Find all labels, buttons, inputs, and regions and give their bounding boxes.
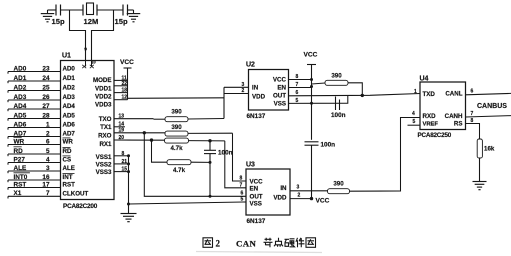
svg-text:AD6: AD6 — [63, 122, 76, 129]
svg-text:8: 8 — [471, 118, 474, 124]
svg-text:AD2: AD2 — [14, 84, 27, 91]
node VSS bus of U1 — [114, 155, 129, 157]
svg-text:9: 9 — [84, 47, 87, 53]
svg-text:RXO: RXO — [98, 132, 112, 139]
svg-text:12M: 12M — [84, 17, 99, 26]
capacitor C5 100n — [335, 97, 337, 111]
svg-text:VSS2: VSS2 — [96, 161, 112, 168]
wire U2 EN pin 7 — [289, 87, 312, 89]
wire RX0 net — [114, 132, 165, 134]
svg-text:CAN: CAN — [236, 239, 257, 249]
crystal Y1 12M — [82, 5, 84, 16]
svg-text:EN: EN — [277, 85, 286, 92]
svg-text:2: 2 — [46, 130, 50, 137]
wire VSS down to ground — [128, 156, 130, 214]
capacitor C4 100n — [209, 141, 211, 151]
svg-text:27: 27 — [42, 103, 50, 110]
wire net WR pin 6 — [8, 144, 61, 146]
wire net ALE pin 3 — [8, 170, 61, 172]
scan smudge under caption — [196, 252, 322, 253]
wire net X1 pin 7 — [8, 195, 61, 197]
svg-text:28: 28 — [42, 112, 50, 119]
svg-text:IN: IN — [252, 85, 259, 92]
svg-text:PCA82C250: PCA82C250 — [418, 132, 452, 139]
svg-text:6: 6 — [296, 90, 299, 96]
svg-text:VCC: VCC — [120, 59, 134, 66]
svg-text:15: 15 — [122, 167, 128, 173]
svg-text:100n: 100n — [321, 142, 336, 149]
wire CANL to CANBUS — [466, 93, 511, 94]
svg-text:VSS: VSS — [250, 201, 262, 208]
svg-text:VCC: VCC — [304, 52, 318, 59]
svg-text:100n: 100n — [218, 150, 233, 157]
capacitor C2 15p — [55, 5, 57, 16]
svg-text:AD1: AD1 — [63, 75, 76, 82]
svg-text:VDD: VDD — [252, 94, 266, 101]
svg-text:AD7: AD7 — [63, 131, 76, 138]
svg-text:100n: 100n — [331, 112, 346, 119]
wire net AD2 pin 25 — [8, 90, 61, 92]
svg-text:VCC: VCC — [316, 198, 330, 205]
svg-text:RS: RS — [454, 120, 463, 127]
svg-text:EN: EN — [250, 186, 259, 193]
svg-text:IN: IN — [280, 185, 287, 192]
svg-text:7: 7 — [46, 190, 50, 197]
wire crystal to XTAL2 — [92, 10, 114, 61]
svg-text:ALE: ALE — [14, 165, 28, 172]
svg-text:VSS: VSS — [274, 101, 286, 108]
node VCC bus of U1 — [114, 79, 128, 81]
svg-text:VDD2: VDD2 — [95, 93, 112, 100]
wire U3 IN pin 3 — [290, 190, 328, 192]
ground (right 15p) — [133, 10, 135, 14]
svg-text:TXO: TXO — [99, 116, 112, 123]
svg-text:390: 390 — [171, 109, 182, 116]
svg-text:16: 16 — [42, 174, 50, 181]
resistor R7 16k — [477, 139, 482, 158]
wire crystal rail b — [61, 9, 84, 11]
svg-text:VDD1: VDD1 — [95, 85, 112, 92]
svg-text:VSS1: VSS1 — [96, 154, 112, 161]
wire TX0 net — [114, 118, 154, 120]
svg-text:26: 26 — [42, 94, 50, 101]
svg-text:RD: RD — [14, 148, 24, 155]
svg-text:4.7k: 4.7k — [170, 145, 183, 152]
op-amp U1 PCA82C200 CAN controller — [61, 61, 115, 200]
op-amp U2 6N137 optocoupler — [249, 70, 289, 111]
svg-text:6: 6 — [46, 138, 50, 145]
svg-text:VSS3: VSS3 — [96, 169, 112, 176]
svg-text:CANBUS: CANBUS — [477, 103, 507, 110]
svg-text:24: 24 — [42, 75, 50, 82]
capacitor C6 100n (VCC rail) — [305, 141, 319, 143]
wire RX1 down to U3 pin 7 — [225, 141, 246, 188]
wire TX1 stub pin 14 — [114, 126, 125, 128]
wire net RD pin 5 — [8, 153, 61, 155]
resistor R2 390 (RX0) — [165, 131, 188, 136]
wire 4.7k2 right leg — [191, 161, 210, 163]
svg-text:8: 8 — [122, 151, 125, 157]
wire RS to slope resistor — [466, 124, 480, 140]
svg-text:CANH: CANH — [445, 113, 463, 120]
svg-text:U2: U2 — [246, 62, 255, 69]
wire U2 VCC pin 8 — [289, 79, 312, 81]
svg-text:MODE: MODE — [93, 77, 112, 84]
svg-text:23: 23 — [42, 65, 50, 72]
svg-text:TXD: TXD — [423, 91, 436, 98]
wire U2 OUT pin 6 to U4 TXD — [289, 94, 421, 96]
svg-text:INT0: INT0 — [14, 174, 28, 181]
svg-text:AD1: AD1 — [14, 75, 27, 82]
svg-text:4: 4 — [46, 156, 50, 163]
svg-text:17: 17 — [42, 181, 50, 188]
svg-text:AD4: AD4 — [14, 103, 27, 110]
wire CANH to CANBUS — [466, 116, 511, 117]
svg-text:VDD3: VDD3 — [95, 101, 112, 108]
svg-text:OUT: OUT — [250, 194, 263, 201]
wire VCC feed to U2 anode — [128, 97, 225, 100]
svg-text:OUT: OUT — [273, 93, 286, 100]
wire crystal rail d — [128, 9, 134, 11]
svg-text:3: 3 — [242, 82, 245, 88]
wire crystal to XTAL1 — [70, 10, 86, 61]
wire VSS to U3 VSS pin 5 — [129, 202, 244, 204]
power VCC (U1) — [127, 68, 129, 100]
svg-text:RXD: RXD — [423, 113, 437, 120]
wire U3 OUT net to RX0 — [144, 133, 246, 197]
wire net P27 pin 4 — [8, 162, 61, 164]
svg-text:7: 7 — [471, 111, 474, 117]
pin 9 / pin 10 xtal marks — [85, 61, 87, 67]
wire RX1 net — [114, 139, 165, 141]
svg-text:8: 8 — [296, 74, 299, 80]
svg-text:6N137: 6N137 — [247, 113, 266, 120]
wire net AD3 pin 26 — [8, 99, 61, 101]
svg-text:AD3: AD3 — [14, 94, 27, 101]
svg-text:15p: 15p — [115, 17, 128, 26]
svg-text:U4: U4 — [420, 76, 429, 83]
svg-text:3: 3 — [297, 185, 300, 191]
svg-text:AD4: AD4 — [63, 103, 76, 110]
caption 图2 CAN节点硬件图 — [203, 238, 213, 248]
svg-text:U3: U3 — [246, 162, 255, 169]
svg-text:7: 7 — [240, 183, 243, 189]
svg-text:10: 10 — [91, 59, 96, 64]
svg-text:AD7: AD7 — [14, 130, 27, 137]
op-amp U4 PCA82C250 CAN transceiver — [420, 82, 466, 130]
wire R6 to U4 RXD — [350, 118, 421, 192]
svg-text:16k: 16k — [484, 146, 495, 153]
svg-text:RST: RST — [63, 182, 76, 189]
svg-text:RX1: RX1 — [99, 141, 112, 148]
svg-text:VCC: VCC — [273, 77, 287, 84]
svg-text:390: 390 — [333, 181, 344, 188]
svg-text:U1: U1 — [62, 53, 71, 60]
svg-text:22: 22 — [122, 81, 128, 87]
svg-text:1: 1 — [414, 89, 417, 95]
svg-text:8: 8 — [240, 176, 243, 182]
svg-text:18: 18 — [122, 88, 128, 94]
svg-text:6N137: 6N137 — [247, 218, 266, 225]
resistor R1 390 (TX0) — [165, 117, 188, 122]
resistor R3 4.7k (RX1) — [165, 138, 189, 143]
wire net AD5 pin 28 — [8, 118, 61, 120]
svg-text:5: 5 — [413, 119, 416, 125]
svg-text:12: 12 — [122, 95, 128, 101]
svg-text:PCA82C200: PCA82C200 — [63, 203, 98, 210]
wire 4.7k2 left leg — [152, 140, 168, 162]
svg-text:P27: P27 — [14, 156, 26, 163]
svg-text:INT: INT — [63, 174, 73, 181]
svg-text:CS: CS — [63, 157, 72, 164]
svg-text:AD0: AD0 — [14, 65, 27, 72]
svg-text:25: 25 — [42, 84, 50, 91]
svg-text:2: 2 — [298, 193, 301, 199]
svg-text:AD0: AD0 — [63, 66, 76, 73]
svg-text:4: 4 — [412, 111, 415, 117]
wire net AD6 pin 1 — [8, 127, 61, 129]
svg-text:AD5: AD5 — [63, 113, 76, 120]
wire net AD1 pin 24 — [8, 80, 61, 82]
wire net AD7 pin 2 — [8, 136, 61, 138]
svg-text:5: 5 — [296, 98, 299, 104]
svg-text:RD: RD — [63, 148, 72, 155]
svg-text:21: 21 — [122, 159, 128, 165]
ground (left 15p) — [47, 10, 49, 14]
svg-text:CLKOUT: CLKOUT — [63, 191, 89, 198]
svg-text:390: 390 — [171, 124, 182, 131]
wire crystal rail a — [48, 9, 57, 11]
svg-text:6: 6 — [471, 89, 474, 95]
capacitor C3 15p — [122, 5, 124, 16]
op-amp U3 6N137 optocoupler — [246, 169, 290, 215]
svg-text:ALE: ALE — [63, 165, 75, 172]
svg-text:WR: WR — [14, 138, 25, 145]
resistor R6 390 (RXD) — [328, 189, 350, 194]
svg-text:1: 1 — [46, 121, 50, 128]
wire net RST pin 17 — [8, 187, 61, 189]
wire crystal rail c — [97, 9, 123, 11]
svg-text:AD2: AD2 — [63, 85, 76, 92]
wire R5 to OUT line — [348, 83, 362, 96]
svg-text:AD6: AD6 — [14, 121, 27, 128]
svg-text:VREF: VREF — [423, 121, 439, 127]
svg-text:2: 2 — [216, 239, 221, 249]
svg-text:VDD: VDD — [273, 195, 287, 202]
resistor R4 4.7k — [167, 160, 191, 165]
ground (RS resistor) — [473, 182, 487, 190]
svg-text:VCC: VCC — [250, 179, 264, 186]
svg-text:15p: 15p — [52, 17, 65, 26]
svg-text:5: 5 — [241, 197, 244, 203]
svg-text:WR: WR — [63, 139, 74, 146]
svg-text:TX1: TX1 — [100, 124, 112, 131]
ground (U1 VSS) — [121, 214, 137, 222]
svg-text:7: 7 — [296, 82, 299, 88]
wire VREF stub — [408, 124, 421, 126]
svg-text:AD5: AD5 — [14, 112, 27, 119]
svg-text:4.7k: 4.7k — [173, 167, 186, 174]
wire RX0 down to U3 pin 8 — [233, 133, 247, 181]
svg-text:RST: RST — [14, 181, 27, 188]
wire net AD0 pin 23 — [8, 71, 61, 73]
wire U2 VSS pin 5 — [289, 95, 348, 103]
wire net AD4 pin 27 — [8, 108, 61, 110]
svg-text:2: 2 — [242, 88, 245, 94]
svg-text:AD3: AD3 — [63, 94, 76, 101]
resistor R5 390 (EN pull) — [325, 80, 348, 85]
wire TX0 up to U2 input — [223, 87, 225, 118]
wire U3 VDD pin 2 / VCC node — [290, 198, 312, 200]
svg-text:X1: X1 — [14, 190, 22, 197]
wire net INT0 pin 16 — [8, 179, 61, 181]
svg-text:3: 3 — [46, 165, 50, 172]
svg-text:390: 390 — [331, 72, 342, 79]
svg-text:CANL: CANL — [445, 91, 462, 98]
svg-text:5: 5 — [46, 148, 50, 155]
